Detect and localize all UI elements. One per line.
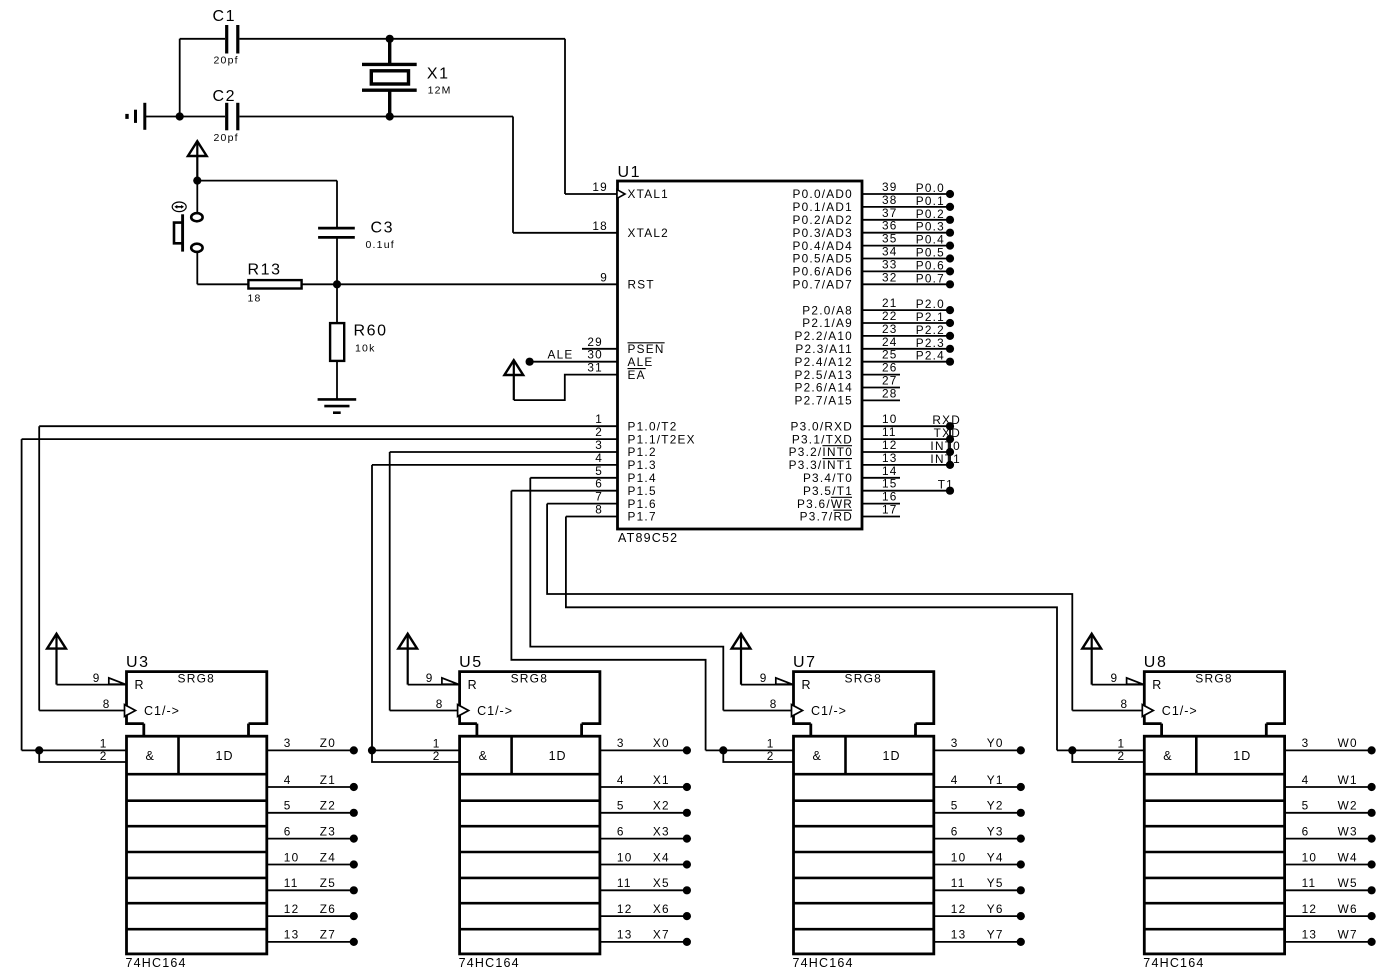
svg-text:11: 11: [1302, 876, 1317, 890]
svg-text:20pf: 20pf: [214, 132, 239, 144]
power VCC arrow (U7): [732, 634, 751, 649]
svg-text:8: 8: [770, 697, 778, 711]
svg-text:X6: X6: [653, 902, 670, 916]
svg-text:SRG8: SRG8: [845, 672, 882, 686]
svg-text:P1.3: P1.3: [628, 458, 657, 472]
svg-text:P0.6: P0.6: [916, 258, 945, 272]
svg-text:P2.1: P2.1: [916, 310, 945, 324]
svg-text:74HC164: 74HC164: [126, 956, 187, 970]
svg-text:18: 18: [248, 293, 262, 305]
svg-text:10: 10: [882, 412, 898, 426]
svg-text:11: 11: [882, 425, 897, 439]
pin P0.2: [862, 219, 951, 221]
svg-text:P0.7/AD7: P0.7/AD7: [793, 278, 854, 292]
pin 11 output X5 (U5): [600, 889, 687, 891]
IC U1 AT89C52 microcontroller: [618, 181, 863, 529]
svg-text:22: 22: [882, 309, 898, 323]
svg-text:9: 9: [426, 671, 434, 685]
svg-text:U5: U5: [459, 654, 483, 671]
wire P1.1: [22, 438, 618, 440]
svg-text:P0.3: P0.3: [916, 220, 945, 234]
svg-text:34: 34: [882, 245, 898, 259]
svg-text:8: 8: [436, 697, 444, 711]
switch S1 (push button): [191, 213, 202, 221]
pin 8 clock (U7): [723, 710, 793, 712]
pin 3 output W0 (U8): [1285, 749, 1372, 751]
pin 6 output Z3 (U3): [267, 838, 354, 840]
IC U5 74HC164 shift register: [460, 672, 600, 724]
wire P1.1 to U3 data: [21, 439, 23, 750]
ground (R60): [318, 398, 357, 401]
pin 9 R (U7): [741, 684, 794, 686]
svg-text:Y4: Y4: [987, 850, 1004, 864]
svg-text:24: 24: [882, 335, 898, 349]
svg-text:P0.2: P0.2: [916, 207, 945, 221]
svg-text:P0.5/AD5: P0.5/AD5: [793, 252, 854, 266]
svg-text:6: 6: [1302, 824, 1310, 838]
svg-text:Y1: Y1: [987, 773, 1004, 787]
svg-text:X1: X1: [653, 773, 670, 787]
pin 1 A input (U5): [372, 749, 460, 751]
capacitor C3: [336, 181, 338, 227]
svg-text:5: 5: [1302, 799, 1310, 813]
svg-text:P0.4: P0.4: [916, 233, 945, 247]
svg-text:P2.0/A8: P2.0/A8: [802, 303, 853, 317]
svg-text:Z3: Z3: [320, 824, 336, 838]
svg-text:5: 5: [951, 799, 959, 813]
svg-text:C1/->: C1/->: [477, 704, 513, 718]
pin 5 output X2 (U5): [600, 812, 687, 814]
power VCC arrow (U8): [1082, 634, 1101, 649]
svg-text:X4: X4: [653, 850, 670, 864]
svg-text:1D: 1D: [216, 749, 234, 763]
pin 4 output Y1 (U7): [934, 786, 1021, 788]
svg-text:13: 13: [1302, 928, 1318, 942]
wire reset top: [197, 180, 337, 182]
svg-text:P1.0/T2: P1.0/T2: [628, 419, 678, 433]
svg-text:W3: W3: [1338, 824, 1358, 838]
svg-text:U3: U3: [126, 654, 150, 671]
svg-text:R: R: [135, 678, 145, 692]
node junction RST: [333, 280, 341, 288]
node junction reset top: [193, 177, 201, 185]
IC U7 74HC164 shift register: [794, 672, 934, 724]
svg-text:P0.0: P0.0: [916, 181, 945, 195]
svg-text:28: 28: [882, 386, 898, 400]
svg-text:12: 12: [882, 438, 898, 452]
svg-text:8: 8: [103, 697, 111, 711]
pin 10 output Z4 (U3): [267, 864, 354, 866]
svg-text:INT1: INT1: [930, 452, 961, 466]
svg-text:P1.4: P1.4: [628, 471, 657, 485]
capacitor C2: [225, 103, 228, 131]
pin 4 output Z1 (U3): [267, 786, 354, 788]
wire P1.5 to U7 data: [511, 491, 705, 751]
svg-text:&: &: [1163, 749, 1172, 763]
svg-text:AT89C52: AT89C52: [618, 531, 678, 545]
svg-text:C1/->: C1/->: [811, 704, 847, 718]
svg-text:XTAL1: XTAL1: [628, 187, 669, 201]
svg-text:30: 30: [587, 348, 603, 362]
wire net chain RXD-INT1: [949, 426, 951, 465]
wire C2/XTAL2 net: [146, 116, 225, 118]
svg-text:P3.4/T0: P3.4/T0: [803, 471, 853, 485]
pin 13 output X7 (U5): [600, 941, 687, 943]
pin P3.3: [862, 464, 951, 466]
pin 5 output W2 (U8): [1285, 812, 1372, 814]
svg-text:P0.4/AD4: P0.4/AD4: [793, 239, 854, 253]
svg-text:P2.4/A12: P2.4/A12: [794, 355, 853, 369]
wire P1.2 to U5 clock: [389, 452, 391, 711]
svg-text:W0: W0: [1338, 736, 1358, 750]
svg-text:2: 2: [767, 749, 775, 763]
svg-text:35: 35: [882, 232, 898, 246]
svg-text:X5: X5: [653, 876, 670, 890]
svg-text:P1.1/T2EX: P1.1/T2EX: [628, 432, 696, 446]
svg-text:R60: R60: [354, 323, 388, 340]
svg-text:P0.7: P0.7: [916, 271, 945, 285]
svg-text:9: 9: [93, 671, 101, 685]
wire P1.3 to U5 data: [371, 465, 373, 751]
svg-text:37: 37: [882, 206, 898, 220]
pin P0.7: [862, 283, 951, 285]
svg-text:U1: U1: [618, 164, 642, 181]
svg-text:T1: T1: [938, 478, 954, 492]
power VCC arrow (U3): [47, 634, 66, 649]
svg-text:P3.5/T1: P3.5/T1: [803, 484, 853, 498]
resistor R13: [248, 280, 301, 288]
wire top net (C1/XTAL1): [180, 38, 225, 40]
svg-text:Z2: Z2: [320, 799, 336, 813]
svg-text:ALE: ALE: [548, 348, 574, 362]
svg-text:P2.4: P2.4: [916, 349, 945, 363]
svg-text:3: 3: [284, 736, 292, 750]
svg-text:16: 16: [882, 490, 898, 504]
pin P2.3: [862, 348, 951, 350]
pin 9 R (U8): [1092, 684, 1145, 686]
svg-text:P2.1/A9: P2.1/A9: [802, 316, 853, 330]
svg-text:P2.2: P2.2: [916, 323, 945, 337]
svg-text:13: 13: [951, 928, 967, 942]
svg-text:C3: C3: [371, 220, 395, 237]
svg-text:12M: 12M: [428, 85, 452, 97]
svg-text:P0.1: P0.1: [916, 194, 945, 208]
wire XTAL1: [565, 193, 618, 195]
svg-text:21: 21: [882, 296, 898, 310]
svg-text:RST: RST: [628, 278, 655, 292]
pin P3.0: [862, 425, 951, 427]
svg-text:19: 19: [592, 180, 608, 194]
wire XTAL2: [513, 232, 618, 234]
svg-text:8: 8: [595, 503, 603, 517]
pin 6 output W3 (U8): [1285, 838, 1372, 840]
wire P1.0: [39, 425, 617, 427]
IC U3 74HC164 shift register: [127, 672, 267, 724]
svg-text:P1.7: P1.7: [628, 510, 657, 524]
svg-text:U7: U7: [793, 654, 817, 671]
pin 5 output Z2 (U3): [267, 812, 354, 814]
svg-text:5: 5: [284, 799, 292, 813]
svg-text:U8: U8: [1144, 654, 1168, 671]
svg-text:Z0: Z0: [320, 736, 336, 750]
svg-text:25: 25: [882, 348, 898, 362]
pin 2 B input (U8): [1072, 750, 1144, 762]
svg-text:4: 4: [1302, 773, 1310, 787]
pin P3.5: [862, 490, 951, 492]
wire P1.6: [547, 503, 617, 505]
svg-text:8: 8: [1120, 697, 1128, 711]
svg-text:9: 9: [1110, 671, 1118, 685]
node junction data (U5): [368, 746, 376, 754]
svg-text:C1: C1: [213, 8, 237, 25]
svg-text:&: &: [146, 749, 155, 763]
wire P1.3: [372, 464, 618, 466]
IC U8 74HC164 shift register: [1144, 672, 1284, 724]
svg-text:7: 7: [595, 490, 603, 504]
svg-text:33: 33: [882, 257, 898, 271]
svg-text:10k: 10k: [355, 343, 376, 355]
svg-text:Z5: Z5: [320, 876, 336, 890]
wire left vertical C1-C2: [179, 39, 181, 117]
node junction data (U8): [1068, 746, 1076, 754]
svg-text:W2: W2: [1338, 799, 1358, 813]
svg-text:P1.6: P1.6: [628, 497, 657, 511]
svg-text:P2.6/A14: P2.6/A14: [794, 381, 853, 395]
pin 13 output Z7 (U3): [267, 941, 354, 943]
pin 5 output Y2 (U7): [934, 812, 1021, 814]
svg-text:11: 11: [951, 876, 966, 890]
svg-text:3: 3: [951, 736, 959, 750]
pin 13 output Y7 (U7): [934, 941, 1021, 943]
pin P2.4: [862, 361, 951, 363]
svg-text:10: 10: [951, 850, 967, 864]
pin P3.1: [862, 438, 951, 440]
node junction left: [176, 112, 184, 120]
svg-text:Y7: Y7: [987, 928, 1004, 942]
wire P1.4: [530, 477, 617, 479]
svg-text:R: R: [1152, 678, 1162, 692]
svg-text:P3.1/TXD: P3.1/TXD: [792, 432, 853, 446]
svg-text:Y0: Y0: [987, 736, 1004, 750]
svg-text:29: 29: [587, 335, 603, 349]
pin P3.4: [862, 477, 900, 479]
pin P0.0: [862, 193, 951, 195]
pin 4 output W1 (U8): [1285, 786, 1372, 788]
pin 1 A input (U7): [706, 749, 794, 751]
svg-text:TXD: TXD: [934, 426, 961, 440]
svg-text:P3.0/RXD: P3.0/RXD: [791, 419, 853, 433]
svg-text:11: 11: [284, 876, 299, 890]
svg-text:EA: EA: [628, 368, 646, 382]
svg-text:10: 10: [617, 850, 633, 864]
pin 11 output Y5 (U7): [934, 889, 1021, 891]
svg-text:2: 2: [433, 749, 441, 763]
pin P0.5: [862, 258, 951, 260]
svg-text:RXD: RXD: [932, 413, 961, 427]
pin P0.6: [862, 270, 951, 272]
pin 10 output X4 (U5): [600, 864, 687, 866]
node junction data (U3): [35, 746, 43, 754]
svg-text:P0.6/AD6: P0.6/AD6: [793, 265, 854, 279]
svg-text:2: 2: [595, 425, 603, 439]
pin 3 output X0 (U5): [600, 749, 687, 751]
svg-text:P3.2/INT0: P3.2/INT0: [789, 445, 853, 459]
svg-text:0.1uf: 0.1uf: [366, 239, 395, 251]
wire P1.6 to U8 clock: [547, 504, 1072, 711]
wire P1.4 to U7 clock: [530, 478, 723, 711]
pin 12 output X6 (U5): [600, 915, 687, 917]
svg-text:13: 13: [284, 928, 300, 942]
svg-text:4: 4: [284, 773, 292, 787]
svg-text:Y5: Y5: [987, 876, 1004, 890]
svg-text:6: 6: [284, 824, 292, 838]
svg-text:5: 5: [617, 799, 625, 813]
svg-text:Z1: Z1: [320, 773, 336, 787]
svg-text:R: R: [468, 678, 478, 692]
pin 6 output X3 (U5): [600, 838, 687, 840]
svg-text:P2.7/A15: P2.7/A15: [794, 394, 853, 408]
pin 11 output Z5 (U3): [267, 889, 354, 891]
svg-text:&: &: [479, 749, 488, 763]
svg-text:P0.1/AD1: P0.1/AD1: [793, 200, 854, 214]
svg-text:1D: 1D: [883, 749, 901, 763]
power VCC arrow (reset): [188, 141, 207, 156]
svg-text:PSEN: PSEN: [628, 342, 665, 356]
pin 1 A input (U8): [1057, 749, 1144, 751]
svg-text:1D: 1D: [549, 749, 567, 763]
pin 13 output W7 (U8): [1285, 941, 1372, 943]
svg-text:6: 6: [617, 824, 625, 838]
svg-text:W6: W6: [1338, 902, 1358, 916]
svg-text:ALE: ALE: [628, 355, 654, 369]
pin PSEN: [582, 348, 618, 350]
node junction crystal bottom: [386, 112, 394, 120]
svg-text:74HC164: 74HC164: [793, 956, 854, 970]
pin 12 output W6 (U8): [1285, 915, 1372, 917]
svg-text:X2: X2: [653, 799, 670, 813]
pin P0.3: [862, 232, 951, 234]
svg-text:P2.0: P2.0: [916, 297, 945, 311]
svg-text:1: 1: [595, 412, 603, 426]
pin P0.4: [862, 245, 951, 247]
svg-text:26: 26: [882, 361, 898, 375]
svg-text:Y3: Y3: [987, 824, 1004, 838]
pin P2.7: [862, 399, 900, 401]
pin 12 output Y6 (U7): [934, 915, 1021, 917]
svg-text:Z7: Z7: [320, 928, 336, 942]
svg-text:18: 18: [592, 219, 608, 233]
svg-text:12: 12: [284, 902, 300, 916]
wire P1.2: [390, 451, 618, 453]
svg-text:P0.2/AD2: P0.2/AD2: [793, 213, 854, 227]
svg-text:W7: W7: [1338, 928, 1358, 942]
pin 8 clock (U3): [39, 710, 126, 712]
capacitor C1: [225, 25, 228, 54]
svg-text:3: 3: [617, 736, 625, 750]
svg-text:15: 15: [882, 477, 898, 491]
resistor R60: [336, 284, 338, 323]
svg-text:P2.3: P2.3: [916, 336, 945, 350]
pin 11 output W5 (U8): [1285, 889, 1372, 891]
pin P2.0: [862, 309, 951, 311]
svg-text:27: 27: [882, 374, 898, 388]
svg-text:XTAL2: XTAL2: [628, 226, 669, 240]
svg-text:2: 2: [1117, 749, 1125, 763]
svg-text:32: 32: [882, 270, 898, 284]
svg-text:3: 3: [595, 438, 603, 452]
svg-text:5: 5: [595, 464, 603, 478]
svg-text:Y6: Y6: [987, 902, 1004, 916]
pin 9 R (U3): [57, 684, 127, 686]
svg-text:17: 17: [882, 503, 898, 517]
pin 2 B input (U7): [723, 750, 793, 762]
node junction crystal top: [386, 35, 394, 43]
svg-text:4: 4: [617, 773, 625, 787]
wire RST net: [302, 283, 618, 285]
svg-text:Y2: Y2: [987, 799, 1004, 813]
pin 10 output Y4 (U7): [934, 864, 1021, 866]
svg-text:74HC164: 74HC164: [459, 956, 520, 970]
svg-text:C1/->: C1/->: [144, 704, 180, 718]
svg-text:9: 9: [600, 270, 608, 284]
svg-text:P3.3/INT1: P3.3/INT1: [789, 458, 853, 472]
svg-text:4: 4: [595, 451, 603, 465]
svg-text:SRG8: SRG8: [178, 672, 215, 686]
svg-text:W4: W4: [1338, 850, 1358, 864]
pin P2.5: [862, 374, 900, 376]
pin P2.1: [862, 322, 951, 324]
svg-text:4: 4: [951, 773, 959, 787]
svg-text:13: 13: [617, 928, 633, 942]
svg-text:P2.2/A10: P2.2/A10: [794, 329, 853, 343]
svg-text:SRG8: SRG8: [511, 672, 548, 686]
svg-text:11: 11: [617, 876, 632, 890]
svg-text:P0.0/AD0: P0.0/AD0: [793, 187, 854, 201]
pin P0.1: [862, 206, 951, 208]
svg-text:9: 9: [760, 671, 768, 685]
pin P3.2: [862, 451, 951, 453]
pin 12 output Z6 (U3): [267, 915, 354, 917]
svg-text:12: 12: [1302, 902, 1318, 916]
svg-text:12: 12: [951, 902, 967, 916]
pin 6 output Y3 (U7): [934, 838, 1021, 840]
svg-text:6: 6: [595, 477, 603, 491]
wire P1.0 to U3 clock: [38, 426, 40, 710]
svg-text:10: 10: [1302, 850, 1318, 864]
wire P1.7: [566, 516, 618, 518]
svg-text:W5: W5: [1338, 876, 1358, 890]
svg-text:R13: R13: [248, 262, 282, 279]
wire P1.7 to U8 data: [566, 517, 1057, 751]
pin 2 B input (U3): [39, 750, 126, 762]
svg-text:P0.3/AD3: P0.3/AD3: [793, 226, 854, 240]
svg-text:3: 3: [1302, 736, 1310, 750]
pin 1 A input (U3): [22, 749, 127, 751]
svg-text:10: 10: [284, 850, 300, 864]
pin 4 output X1 (U5): [600, 786, 687, 788]
svg-text:X3: X3: [653, 824, 670, 838]
svg-text:R: R: [802, 678, 812, 692]
svg-text:INT0: INT0: [930, 439, 961, 453]
pin EA to VCC: [514, 375, 618, 401]
svg-text:39: 39: [882, 180, 898, 194]
svg-text:12: 12: [617, 902, 633, 916]
pin 8 clock (U8): [1072, 710, 1144, 712]
svg-text:P2.5/A13: P2.5/A13: [794, 368, 853, 382]
crystal X1: [362, 63, 417, 66]
svg-text:31: 31: [587, 361, 603, 375]
svg-text:Z4: Z4: [320, 850, 336, 864]
